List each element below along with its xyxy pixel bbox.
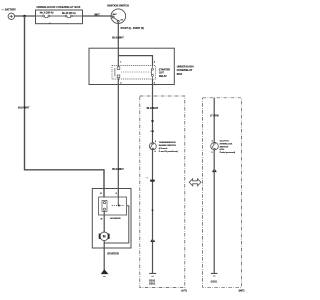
wire LT GRN from box top to clutch interlock switch: [213, 98, 215, 143]
svg-text:BOX: BOX: [177, 73, 183, 76]
wire motor to ground: [103, 241, 105, 271]
wire WHT fuse box to ignition switch: [83, 15, 113, 17]
starter motor M1: [100, 232, 109, 241]
ignition switch: [111, 9, 126, 24]
svg-text:C42: C42: [151, 130, 154, 133]
arrow between A/T and M/T boxes: [189, 179, 201, 186]
M/T dashed box: [203, 98, 242, 287]
starter cut relay: [112, 66, 156, 79]
svg-text:(A/T): (A/T): [181, 290, 187, 293]
wire solenoid to motor: [103, 211, 105, 232]
svg-text:FUSE/RELAY: FUSE/RELAY: [177, 69, 193, 72]
under-dash fuse/relay box: [89, 48, 174, 84]
under-hood fuse/relay box: [36, 10, 83, 24]
clutch interlock switch: [211, 142, 219, 150]
svg-text:STARTER: STARTER: [107, 253, 119, 256]
svg-text:UNDER-DASH: UNDER-DASH: [177, 65, 194, 68]
svg-text:G101: G101: [211, 280, 218, 284]
relay contacts and coil: [115, 66, 153, 79]
node splice on BLK/WHT wire: [151, 120, 153, 122]
svg-text:CLUTCH: CLUTCH: [220, 141, 229, 143]
starter assembly box: [92, 189, 131, 249]
connector bar on wire: [150, 180, 155, 182]
svg-text:UNDER-HOOD FUSE/RELAY BOX: UNDER-HOOD FUSE/RELAY BOX: [36, 5, 80, 9]
svg-text:3: 3: [212, 152, 213, 154]
fuse No.2 (100 A): [43, 15, 50, 18]
svg-text:(Closed:: (Closed:: [159, 148, 168, 150]
svg-text:BLK/WHT: BLK/WHT: [147, 107, 159, 110]
A/T dashed box: [140, 96, 185, 288]
svg-text:TRANSMISSION: TRANSMISSION: [159, 141, 176, 144]
connector (in-line): [212, 169, 214, 172]
node junction at battery feed: [23, 15, 26, 18]
transmission range switch: [149, 143, 156, 150]
svg-text:(M/T): (M/T): [239, 290, 245, 293]
wire range switch to ground: [152, 150, 154, 273]
wire battery to fuse box: [15, 15, 36, 17]
svg-text:5: 5: [155, 141, 156, 143]
wire BLK/WHT relay pin 3 down to transmission range switch: [152, 79, 154, 143]
svg-text:BLK/WHT: BLK/WHT: [112, 36, 124, 39]
wire ST terminal down to under-dash box: [117, 24, 119, 56]
wire inside fuse box: [36, 15, 44, 17]
svg-text:BLK/WHT: BLK/WHT: [18, 106, 30, 109]
wire coil return to motor bottom: [104, 206, 129, 243]
wire BLK/WHT relay pin 2 down to starter S: [117, 79, 119, 198]
svg-text:BATTERY: BATTERY: [5, 9, 16, 12]
svg-text:P and N positions): P and N positions): [159, 150, 178, 153]
svg-text:6: 6: [155, 151, 156, 153]
wire branch to relay pins 1 and 4: [118, 56, 152, 66]
svg-text:No.23 (50 A): No.23 (50 A): [62, 12, 76, 15]
svg-text:BLK/WHT: BLK/WHT: [112, 168, 124, 171]
battery cable wire (left, down to starter B): [25, 16, 105, 198]
connector (in-line): [150, 239, 152, 242]
battery B1: [8, 13, 14, 19]
svg-text:M: M: [103, 235, 106, 239]
svg-text:INTERLOCK: INTERLOCK: [220, 143, 233, 145]
svg-text:IGNITION SWITCH: IGNITION SWITCH: [107, 5, 129, 8]
svg-text:No.2 (100 A): No.2 (100 A): [40, 12, 54, 15]
solenoid: [99, 197, 127, 215]
wire clutch switch to ground: [213, 150, 215, 273]
svg-text:Pedal pressed): Pedal pressed): [220, 152, 236, 154]
ground G1 (starter): [101, 269, 109, 274]
svg-text:G101: G101: [149, 282, 156, 286]
ground G101 (A/T): [149, 272, 156, 275]
node splice: [152, 209, 154, 211]
svg-text:LT GRN: LT GRN: [210, 115, 219, 118]
svg-text:SOLENOID: SOLENOID: [110, 218, 121, 220]
svg-text:RELAY: RELAY: [159, 75, 167, 78]
svg-text:SWITCH: SWITCH: [220, 146, 229, 148]
svg-text:START (I) - START (II): START (I) - START (II): [121, 27, 144, 30]
svg-text:(ON:: (ON:: [220, 149, 225, 151]
svg-text:WHT: WHT: [94, 14, 100, 16]
ground G101 (M/T): [211, 272, 218, 275]
svg-text:RANGE SWITCH: RANGE SWITCH: [159, 144, 177, 147]
fuse No.23 (50 A): [65, 15, 72, 18]
tick mark at fuse box bottom: [48, 23, 50, 24]
